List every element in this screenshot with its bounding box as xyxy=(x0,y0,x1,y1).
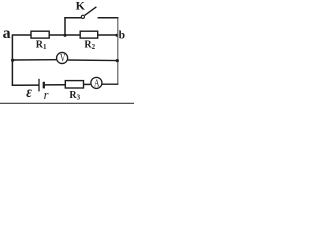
junction: K branch tap xyxy=(64,34,67,37)
wire: top left, node a to R1 xyxy=(12,34,31,36)
switch K blade xyxy=(85,7,97,16)
resistor R2 xyxy=(80,31,98,38)
wire: bottom left horizontal xyxy=(12,84,39,86)
battery long plate xyxy=(38,79,40,92)
svg-text:K: K xyxy=(76,0,86,13)
svg-text:r: r xyxy=(44,88,49,102)
voltmeter V xyxy=(57,52,68,63)
svg-text:ε: ε xyxy=(26,84,32,101)
wire: ammeter to bottom right corner xyxy=(102,83,119,85)
svg-text:V: V xyxy=(60,53,66,65)
wire: K branch left horizontal xyxy=(64,17,81,19)
wire: right vertical (b riser) xyxy=(117,18,119,85)
resistor R3 xyxy=(65,81,83,88)
wire: K branch riser xyxy=(64,17,66,35)
battery short plate xyxy=(43,82,45,89)
junction: voltmeter left tap xyxy=(11,59,14,62)
wire: R1 to R2 xyxy=(49,34,80,36)
svg-text:A: A xyxy=(94,78,100,90)
wire: voltmeter left lead xyxy=(12,59,56,61)
wire: left vertical (a drop) xyxy=(11,34,13,85)
junction: node b xyxy=(115,34,118,37)
switch K pivot xyxy=(81,15,84,18)
wire: battery to R3 xyxy=(45,84,65,86)
resistor R1 xyxy=(31,31,49,38)
wire: K branch right horizontal xyxy=(98,17,119,19)
wire: R3 to ammeter xyxy=(84,83,91,85)
svg-text:b: b xyxy=(119,30,125,42)
svg-text:a: a xyxy=(3,25,11,42)
ammeter A xyxy=(91,77,102,88)
junction: voltmeter right tap xyxy=(116,59,119,62)
wire: voltmeter right lead xyxy=(68,59,118,62)
bottom rule line xyxy=(0,102,134,104)
wire: R2 to node b xyxy=(98,34,118,36)
